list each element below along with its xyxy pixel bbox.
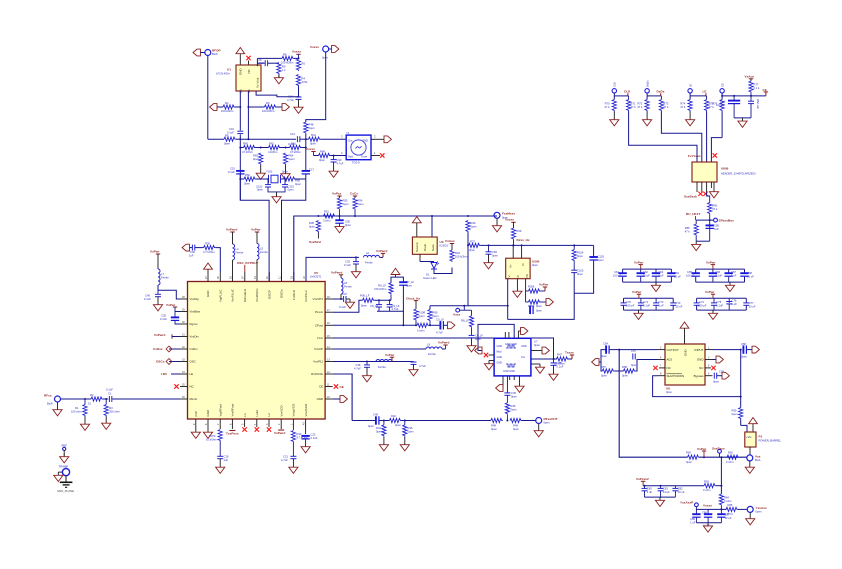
capacitor C7_LF thick (399, 282, 407, 285)
wire (207, 56, 209, 140)
no-connect X pin5 (242, 427, 246, 431)
capacitor C28 (366, 362, 368, 365)
svg-text:L5: L5 (260, 247, 263, 251)
no-connect X pin3 (267, 427, 271, 431)
svg-text:REF: REF (62, 443, 68, 447)
resistor R59 (739, 408, 743, 420)
resistor R27 (469, 243, 481, 247)
ground (549, 371, 558, 380)
svg-text:FrxRLD: FrxRLD (292, 290, 296, 300)
wire to header pin3 (706, 112, 708, 163)
svg-text:VxxRFout: VxxRFout (231, 404, 235, 417)
capacitor C70 (621, 303, 627, 305)
svg-text:Ferrite: Ferrite (344, 285, 352, 289)
capacitor C72 (655, 298, 657, 303)
svg-text:0pen: 0pen (511, 408, 517, 412)
bottom pin1 chain R C gnd (291, 431, 295, 443)
svg-text:R60: R60 (243, 141, 248, 145)
wire (236, 138, 240, 140)
svg-text:L1: L1 (243, 413, 247, 417)
capacitor C85 thick (695, 509, 697, 514)
svg-text:SxxBxxk: SxxBxxk (684, 195, 697, 199)
svg-text:GND: GND (497, 356, 503, 359)
svg-text:R62: R62 (269, 141, 274, 145)
inductor L7 (158, 269, 160, 285)
svg-text:0 ohm: 0 ohm (417, 329, 425, 333)
svg-text:VxPxx: VxPxx (332, 192, 342, 196)
svg-text:VxPwrd: VxPwrd (226, 228, 237, 232)
svg-text:C76: C76 (732, 298, 737, 302)
svg-text:0pen: 0pen (361, 304, 367, 308)
svg-text:C57: C57 (631, 349, 636, 353)
svg-text:R64: R64 (289, 154, 294, 158)
inductor L6 (364, 255, 380, 257)
svg-text:R2: R2 (90, 393, 94, 397)
svg-text:CxP: CxP (194, 411, 198, 417)
svg-text:4.7uF: 4.7uF (436, 331, 443, 335)
VCO top pin wire loop (478, 324, 514, 350)
svg-text:0pen: 0pen (577, 272, 583, 276)
pin14 wire (333, 348, 426, 350)
resistor R54 above bus (353, 195, 357, 197)
svg-text:R90: R90 (433, 311, 438, 315)
capacitor C30 (333, 156, 335, 160)
U8 pin stubs (658, 350, 713, 376)
capacitor + ground pin13 end (411, 362, 417, 364)
ground (513, 288, 522, 297)
no-connect X bottom (698, 192, 702, 196)
net label LE pin34 (171, 373, 180, 375)
wire P1 to V+ (749, 447, 751, 455)
svg-text:R64: R64 (724, 495, 729, 499)
svg-text:0pen: 0pen (713, 380, 719, 384)
U5 bottom pin stubs (196, 419, 306, 434)
ground (379, 442, 388, 451)
svg-text:OUTPUT: OUTPUT (667, 348, 680, 352)
capacitor C8_LF (378, 300, 380, 304)
svg-text:0pen: 0pen (282, 170, 288, 174)
svg-text:Vxxxx: Vxxxx (505, 218, 514, 222)
svg-text:0.1uF: 0.1uF (106, 388, 113, 392)
svg-text:0pen: 0pen (257, 188, 263, 192)
wire (158, 285, 180, 299)
resistor R75 (706, 96, 708, 100)
ground (703, 523, 712, 532)
svg-text:L7: L7 (161, 272, 164, 276)
svg-text:470k: 470k (302, 80, 308, 84)
resistor R47 (557, 357, 569, 361)
INPUT wire (713, 349, 742, 351)
svg-text:CE: CE (720, 83, 724, 87)
ground (345, 299, 354, 308)
svg-text:R48: R48 (309, 123, 314, 127)
wire (235, 106, 240, 108)
svg-text:C49: C49 (373, 412, 378, 416)
net label VxPwrd (380, 256, 384, 258)
svg-text:V-: V- (507, 275, 511, 278)
ground (329, 168, 338, 177)
svg-text:0pen: 0pen (309, 126, 315, 130)
svg-text:0pen: 0pen (534, 343, 540, 347)
ground (335, 223, 344, 232)
svg-text:LE: LE (688, 84, 692, 87)
wire caps join (268, 187, 285, 192)
svg-text:VxPwr: VxPwr (166, 303, 176, 307)
svg-text:0.1uF: 0.1uF (557, 364, 564, 368)
svg-text:0pen: 0pen (309, 225, 315, 229)
capacitor C50 thick + ground (339, 215, 341, 217)
node circle YxxAxxP (695, 503, 699, 507)
svg-text:NC: NC (190, 385, 194, 389)
svg-text:CE: CE (340, 385, 344, 389)
net label VxPwr (702, 450, 706, 452)
svg-text:VxPwr: VxPwr (385, 353, 395, 357)
svg-text:VxPwrd: VxPwrd (376, 249, 387, 253)
U5 top pin stubs (208, 272, 306, 282)
resistor R62b series (727, 455, 739, 459)
svg-text:ADJ: ADJ (667, 358, 673, 362)
capacitor C75 (713, 298, 715, 303)
capacitor C0_LF thick series (440, 321, 443, 329)
svg-text:R57: R57 (601, 365, 606, 369)
resistor R48 (304, 122, 308, 134)
net label VxPwr (541, 290, 546, 292)
svg-text:Dxxx_Hx: Dxxx_Hx (517, 238, 530, 242)
TCXO Y1 (346, 135, 371, 160)
svg-text:Ferrite: Ferrite (161, 276, 169, 280)
svg-text:0pen: 0pen (343, 202, 349, 206)
svg-text:47 k: 47 k (685, 230, 691, 234)
bank3 rails (624, 298, 674, 310)
svg-text:OSCIP: OSCIP (268, 290, 272, 299)
capacitor C18 (296, 97, 302, 99)
svg-text:4 kOhm: 4 kOhm (268, 150, 278, 154)
svg-text:0pen: 0pen (419, 314, 425, 318)
svg-text:U7: U7 (534, 340, 538, 344)
capacitor C35 thick (171, 317, 179, 320)
svg-text:47 kOhm: 47 kOhm (290, 150, 302, 154)
svg-text:CxCx: CxCx (350, 192, 358, 196)
svg-text:0pen: 0pen (544, 420, 550, 424)
svg-text:0pen: 0pen (741, 355, 747, 359)
svg-text:47 k: 47 k (631, 105, 637, 109)
svg-text:BU_UK1T: BU_UK1T (686, 212, 700, 216)
svg-text:10 uF: 10 uF (749, 305, 756, 309)
svg-text:R8_LF: R8_LF (461, 319, 469, 323)
svg-text:INPUT: INPUT (695, 348, 704, 352)
ground (492, 223, 501, 232)
rail2 (696, 508, 726, 510)
svg-text:CPout: CPout (315, 323, 323, 327)
resistor R90 vertical (429, 306, 431, 310)
capacitor C86 thick (707, 509, 709, 514)
svg-text:VxxPLL2: VxxPLL2 (304, 290, 308, 302)
svg-text:R41: R41 (311, 133, 316, 137)
IC U5 (188, 282, 326, 420)
svg-text:C82: C82 (678, 487, 683, 491)
svg-text:Mod: Mod (497, 351, 502, 354)
capacitor C68 thick (740, 273, 748, 276)
capacitor C76 (728, 298, 730, 303)
svg-text:FxxMxxx: FxxMxxx (502, 212, 515, 216)
pin13 wire (333, 361, 414, 363)
svg-text:V+: V+ (509, 264, 513, 268)
ground (256, 170, 265, 179)
ground (686, 117, 695, 126)
bottom pin9 ground (191, 429, 200, 438)
ground bank2 (725, 282, 734, 291)
net label OSC pin33 (169, 361, 180, 363)
resistor R72 (645, 100, 649, 112)
svg-text:R47: R47 (557, 353, 562, 357)
svg-text:100 kOhm: 100 kOhm (455, 255, 468, 259)
svg-text:Ferrite: Ferrite (236, 251, 244, 255)
svg-text:R8: R8 (283, 53, 287, 57)
svg-text:47 k: 47 k (712, 207, 718, 211)
svg-text:0pen: 0pen (288, 188, 294, 192)
port arrow left pin26 (182, 244, 189, 251)
svg-text:C16: C16 (229, 127, 234, 131)
capacitor C81 (660, 485, 662, 487)
svg-text:In: In (521, 263, 525, 266)
wire (217, 106, 223, 108)
resistor R52 (244, 177, 256, 181)
svg-text:OSCx: OSCx (156, 360, 165, 364)
svg-text:R50: R50 (712, 204, 717, 208)
capacitor C102 (267, 179, 269, 185)
svg-text:BxxL: BxxL (755, 458, 761, 462)
port arrow right (332, 46, 339, 53)
svg-text:R47b: R47b (209, 434, 216, 438)
power symbol P1 (749, 418, 758, 427)
wire (401, 420, 490, 422)
wire (300, 138, 309, 140)
wire (614, 370, 623, 372)
svg-text:C85: C85 (690, 517, 695, 521)
resistor R50 below header (707, 192, 710, 203)
port DxDx circle (645, 89, 649, 93)
wire rail (375, 299, 392, 301)
port CLK circle (612, 89, 616, 93)
svg-text:R63: R63 (253, 154, 258, 158)
svg-text:0pen: 0pen (368, 424, 374, 428)
svg-text:100 ohm: 100 ohm (71, 410, 82, 414)
svg-text:0pen: 0pen (511, 394, 517, 398)
svg-text:DxDx: DxDx (657, 90, 665, 94)
wire (522, 420, 536, 422)
ground (400, 442, 409, 451)
wire bus to U3 drain (431, 215, 433, 217)
svg-text:100 pF: 100 pF (626, 303, 635, 307)
svg-text:VxPwr: VxPwr (706, 260, 716, 264)
port arrow left (210, 104, 217, 111)
svg-text:C75: C75 (716, 300, 721, 304)
svg-text:C103: C103 (598, 255, 605, 259)
capacitor C67 thick (728, 269, 730, 273)
no-connect X U8 right (711, 366, 715, 370)
svg-text:Rgxxx: Rgxxx (190, 322, 199, 326)
svg-text:0.5 k: 0.5 k (727, 512, 733, 516)
bottom pin8 ground (203, 429, 212, 438)
wire U2 node to pin16 net (430, 305, 508, 307)
ground VCO right low (531, 363, 540, 365)
bottom rail2 (696, 522, 721, 524)
svg-text:L4: L4 (236, 247, 239, 251)
net label Vtune (314, 155, 319, 157)
svg-text:R42: R42 (391, 414, 396, 418)
net label VxPwr pin6 (229, 430, 235, 432)
power symbol (236, 48, 245, 57)
svg-text:Vxx: Vxx (755, 455, 761, 459)
svg-text:R72: R72 (637, 102, 642, 106)
svg-text:C13: C13 (290, 132, 295, 136)
wire loop (574, 260, 593, 293)
filter U1 (236, 65, 261, 91)
svg-text:0.1uF: 0.1uF (716, 303, 723, 307)
pin16 CPout wire (333, 324, 417, 326)
svg-text:1 uF: 1 uF (658, 274, 664, 278)
svg-text:1 uF: 1 uF (658, 303, 664, 307)
svg-text:Vxxx: Vxxx (453, 312, 461, 316)
svg-text:0pen: 0pen (532, 263, 538, 267)
svg-text:0.1uF: 0.1uF (643, 274, 650, 278)
TRIABP port circle (62, 469, 69, 476)
wire CE loop bottom (734, 117, 751, 119)
wire top (391, 277, 403, 283)
svg-text:VxPwrd: VxPwrd (154, 333, 165, 337)
svg-text:10 uF: 10 uF (678, 490, 685, 494)
RF out chain wire (352, 420, 376, 422)
VCO module U7 (494, 338, 531, 376)
capacitor C103 thick series (589, 257, 597, 260)
svg-text:VxxCP: VxxCP (314, 347, 323, 351)
svg-text:100 pF: 100 pF (698, 303, 707, 307)
svg-text:R5: R5 (302, 62, 306, 66)
svg-text:TxxPxxx: TxxPxxx (226, 432, 239, 436)
resistor R43 vertical (383, 421, 385, 425)
svg-text:0.1uF: 0.1uF (344, 263, 351, 267)
svg-text:0pen: 0pen (253, 157, 259, 161)
svg-text:4.7uF: 4.7uF (392, 307, 399, 311)
wire (256, 58, 258, 66)
svg-text:47 k: 47 k (604, 105, 610, 109)
svg-text:0 ohm: 0 ohm (724, 499, 732, 503)
resistor R64b (719, 494, 723, 506)
svg-text:0pen: 0pen (536, 304, 542, 308)
port arrow right (448, 322, 455, 329)
svg-text:C86: C86 (702, 511, 707, 515)
svg-text:VxPwrd: VxPwrd (438, 341, 449, 345)
ground bank1 (651, 282, 660, 291)
svg-text:C1: C1 (108, 392, 112, 396)
svg-text:4.7uF: 4.7uF (257, 61, 264, 65)
capacitor C105 (571, 270, 577, 272)
ground (692, 241, 701, 250)
svg-text:R53: R53 (343, 199, 348, 203)
svg-text:VxxgVCO: VxxgVCO (292, 403, 296, 416)
svg-text:VrgRFout: VrgRFout (218, 404, 222, 416)
wire bottom rail (377, 311, 403, 325)
svg-text:U3: U3 (440, 240, 444, 244)
svg-text:VxPwr: VxPwr (634, 260, 644, 264)
svg-text:0pen: 0pen (406, 283, 412, 287)
svg-text:Source: Source (415, 242, 419, 252)
capacitor C33 + ground (355, 257, 357, 261)
svg-text:OSC: OSC (190, 360, 196, 364)
svg-text:R1: R1 (75, 406, 79, 410)
wire to P1 (741, 425, 747, 432)
power symbol above U3 (412, 217, 421, 226)
svg-text:VxPwr: VxPwr (697, 447, 707, 451)
port YxxAxx circle (747, 506, 753, 512)
svg-text:R30: R30 (205, 242, 210, 246)
svg-text:R2: R2 (225, 101, 229, 105)
svg-text:YxxAxxP: YxxAxxP (680, 501, 693, 505)
OUTPUT wire left (609, 349, 657, 351)
ground (746, 516, 755, 525)
svg-text:Vxxxx: Vxxxx (292, 49, 301, 53)
svg-text:0.1uF: 0.1uF (311, 436, 318, 440)
resistor R63 (259, 153, 263, 165)
svg-text:U200: U200 (532, 260, 540, 264)
capacitor C61 thick (618, 273, 626, 276)
svg-text:Cfxxx_Hx: Cfxxx_Hx (406, 296, 420, 300)
bottom pin40 cap thick + gnd (301, 436, 309, 439)
svg-text:R29: R29 (517, 229, 522, 233)
capacitor C84 + ground (488, 245, 490, 251)
U2 (506, 258, 530, 279)
svg-text:0pen: 0pen (732, 412, 738, 416)
resistor R1 (84, 399, 86, 405)
svg-text:R24: R24 (455, 251, 460, 255)
svg-text:4.7uF: 4.7uF (354, 366, 361, 370)
svg-text:4.7uF: 4.7uF (337, 161, 344, 165)
svg-text:0pen: 0pen (536, 309, 542, 313)
svg-text:C65: C65 (687, 270, 692, 274)
svg-text:C70: C70 (626, 300, 631, 304)
svg-text:GND_PLANE: GND_PLANE (57, 489, 74, 493)
bank4 rails (697, 298, 747, 310)
wire to Y1 (321, 138, 347, 140)
port FxxMxxx circle (494, 212, 500, 218)
svg-text:CE: CE (319, 385, 323, 389)
svg-text:0pen: 0pen (622, 374, 628, 378)
no-connect X pin4 (255, 427, 259, 431)
rail wire (643, 485, 704, 487)
bottom pin7 chain R C gnd (218, 430, 222, 442)
ground (467, 343, 476, 352)
svg-text:VxxOSCIn: VxxOSCIn (255, 288, 259, 302)
svg-text:100 kOhm: 100 kOhm (262, 109, 275, 113)
LED D1 (419, 254, 421, 261)
svg-text:SPxxxMxx: SPxxxMxx (719, 218, 735, 222)
resistor R30 (195, 247, 204, 249)
svg-text:0pen: 0pen (376, 430, 382, 434)
resistor R71 (628, 96, 630, 100)
svg-text:OSC_BYPOUT: OSC_BYPOUT (237, 261, 258, 265)
capacitor C1 (109, 396, 111, 402)
svg-text:TC0-9: TC0-9 (352, 161, 360, 165)
ground (745, 464, 754, 473)
svg-text:0pen: 0pen (345, 223, 351, 227)
header bottom stubs (697, 182, 714, 192)
svg-text:R55: R55 (685, 226, 690, 230)
svg-text:U5: U5 (314, 271, 318, 275)
resistor R24 (450, 250, 454, 262)
resistor row: R60 (240, 147, 243, 149)
svg-text:0pen: 0pen (686, 460, 692, 464)
capacitor C64 thick (667, 273, 675, 276)
